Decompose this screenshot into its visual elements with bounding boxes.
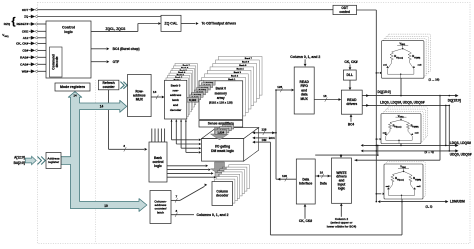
pin CK, CK# (label, buffer, wire) (16, 41, 46, 45)
op-amp Bank control logic (149, 142, 167, 182)
op-amp READ drivers (341, 90, 362, 114)
svg-text:BA[2:0]: BA[2:0] (14, 161, 25, 165)
wire DQ input feedback to WRITE drivers (355, 95, 441, 162)
counter Column address counter/latch (150, 191, 171, 224)
svg-text:7: 7 (175, 195, 177, 199)
svg-text:interface: interface (299, 181, 312, 185)
bus 8,192 row lines boxes (187, 80, 215, 102)
wire OTF output (91, 60, 119, 64)
wire 128 bidirectional to I/O gating (252, 127, 277, 135)
svg-text:13: 13 (153, 90, 157, 94)
op-amp I/O gating DM mask logic (202, 128, 259, 162)
svg-text:register: register (48, 160, 60, 164)
resistor ODT RTT block DM (384, 164, 423, 199)
svg-text:16: 16 (323, 94, 327, 98)
svg-text:BC4: BC4 (348, 122, 355, 126)
svg-text:logic: logic (64, 30, 73, 34)
node core region dotted line (95, 80, 97, 244)
svg-text:CK, CK#: CK, CK# (299, 219, 312, 223)
wire bank select lines to row latch stack (152, 129, 165, 143)
svg-text:DM mask logic: DM mask logic (211, 149, 234, 153)
svg-text:(1 ... 4): (1 ... 4) (425, 150, 434, 154)
pin CKE (label, buffer, wire) (22, 29, 46, 33)
svg-text:LDM/UDM: LDM/UDM (450, 200, 465, 204)
pin WE# (label, buffer, wire) (22, 69, 46, 73)
bus address bus (teal) (61, 92, 147, 212)
svg-text:128: 128 (262, 127, 267, 131)
node ODT control label (339, 6, 350, 14)
svg-text:Bank 0: Bank 0 (171, 83, 181, 87)
svg-text:MUX: MUX (301, 97, 309, 101)
svg-text:CK, CK#: CK, CK# (16, 41, 28, 45)
wire column address 7 to column decoder (171, 184, 207, 203)
node (1 ... 4) count label (425, 150, 434, 154)
svg-text:ZQ CAL: ZQ CAL (164, 21, 178, 25)
svg-text:3: 3 (123, 144, 125, 148)
node bank memory array stack (banks 1-7) (202, 57, 262, 116)
wire DLL to READ drivers (349, 80, 352, 90)
svg-text:ZQCL, ZQCS: ZQCL, ZQCS (106, 27, 127, 31)
op-amp U-ODT ODT control box (333, 5, 357, 14)
svg-text:LDQS, LDQS#: LDQS, LDQS# (450, 141, 471, 145)
svg-text:(8192 x 128 x 128): (8192 x 128 x 128) (209, 101, 233, 105)
op-amp WRITE drivers and input logic (332, 158, 352, 203)
svg-text:128: 128 (282, 174, 287, 178)
svg-text:Columns 0, 1, and 2: Columns 0, 1, and 2 (197, 213, 229, 217)
svg-text:CAS#: CAS# (20, 62, 28, 66)
svg-text:address: address (170, 93, 182, 97)
bus I/O gating to column decoder arrow (211, 162, 229, 175)
svg-text:logic: logic (154, 164, 162, 168)
node (1 ... 16) count label (429, 78, 440, 82)
svg-text:(1 ... 16): (1 ... 16) (429, 78, 440, 82)
svg-text:TT(nom): TT(nom) (394, 127, 401, 129)
node address input A[12:0] BA[2:0] (14, 155, 46, 165)
svg-text:decode: decode (55, 56, 59, 67)
svg-text:A12: A12 (23, 36, 29, 40)
svg-text:row-: row- (173, 88, 179, 92)
svg-text:WE#: WE# (22, 69, 29, 73)
wire 16 READ FIFO to READ drivers (314, 94, 341, 102)
svg-text:logic: logic (338, 186, 346, 190)
bus 1,024 I/O lines boxes (215, 125, 234, 135)
decoder Bank 0 row-address latch and decoder (165, 80, 187, 119)
wire row address 13 to latch stack (151, 90, 164, 99)
svg-text:TT(nom): TT(nom) (396, 57, 403, 59)
svg-text:Bank 0: Bank 0 (216, 87, 227, 91)
svg-text:TT(WR): TT(WR) (415, 179, 422, 181)
wire 128 to data interface (276, 174, 296, 182)
svg-text:RAS#: RAS# (20, 55, 28, 59)
wire BC4 burst chop output (91, 47, 140, 51)
svg-text:and: and (173, 103, 178, 107)
svg-text:TT(WR): TT(WR) (412, 127, 419, 129)
svg-text:decoder: decoder (216, 193, 229, 197)
svg-text:array: array (217, 96, 225, 100)
svg-text:BC4: BC4 (269, 136, 275, 140)
svg-text:DQ[15:0]: DQ[15:0] (378, 90, 391, 94)
svg-text:DDQ: DDQ (401, 44, 405, 46)
wire UDQS pad wire (361, 105, 472, 156)
op-amp Sense amplifiers (199, 121, 243, 128)
decoder Command decode (50, 47, 63, 77)
op-amp DLL (343, 70, 356, 80)
svg-text:A[12:0]: A[12:0] (14, 155, 25, 159)
node Bank 0 memory array (199, 81, 243, 120)
wire column 2 select into WRITE drivers (327, 203, 356, 228)
svg-text:CS#: CS# (22, 48, 28, 52)
svg-text:ODT: ODT (22, 8, 29, 12)
svg-text:OTF: OTF (113, 60, 120, 64)
wire ODT control rail (357, 10, 385, 202)
svg-text:128: 128 (277, 85, 282, 89)
svg-text:14: 14 (100, 104, 104, 108)
node Control logic label (62, 26, 75, 34)
node refresh chevron arrow (120, 82, 127, 89)
svg-text:Mode registers: Mode registers (60, 85, 85, 89)
pin ODT (label, buffer, wire) (22, 8, 333, 12)
node (1, 2) count label (426, 205, 433, 209)
wire LDM/UDM pad wire (376, 199, 466, 204)
svg-text:14: 14 (73, 94, 77, 98)
svg-text:counter: counter (103, 85, 116, 89)
clock CK,CK# into DLL (344, 60, 357, 70)
svg-text:RESET#: RESET# (16, 22, 28, 26)
register Mode registers (55, 83, 90, 91)
wire ZQCL,ZQCS from control logic to ZQ CAL (91, 22, 161, 31)
wire DM mask path (252, 138, 402, 235)
wire latch stack to I/O gating elbows (171, 120, 202, 154)
svg-text:TT(WR): TT(WR) (414, 57, 421, 59)
wire refresh counter to bank select (3) (109, 90, 148, 152)
svg-text:control: control (339, 10, 350, 14)
resistor ODT RTT block DQ (381, 41, 424, 78)
bus 128 column lines boxes (215, 167, 234, 177)
ground VSSQ (2, 33, 9, 38)
wire columns 0,1,2 (3) (171, 209, 229, 217)
decoder bank row-address latch stack (banks 1-7) (166, 64, 197, 117)
svg-text:To ODT/output drivers: To ODT/output drivers (202, 22, 237, 26)
svg-text:1,024: 1,024 (217, 130, 224, 134)
register READ FIFO and data MUX (294, 67, 314, 114)
svg-text:decoder: decoder (170, 108, 182, 112)
svg-text:Data: Data (320, 182, 327, 186)
op-amp none Control logic box (46, 21, 91, 78)
pin CAS# (label, buffer, wire) (20, 62, 46, 66)
counter Refresh counter (98, 80, 119, 90)
svg-text:CKE: CKE (22, 29, 28, 33)
register Address register (46, 153, 61, 169)
svg-text:LDQS, LDQS#, UDQS, UDQS#: LDQS, LDQS#, UDQS, UDQS# (380, 100, 425, 104)
resistor ODT RTT block DM stack (386, 162, 425, 197)
svg-text:MUX: MUX (136, 97, 144, 101)
svg-text:BC4 (Burst chop): BC4 (Burst chop) (113, 47, 140, 51)
wire bank control to column decoder stack (167, 165, 216, 179)
resistor ODT RTT block DQS stack (383, 107, 427, 141)
pin ZQ (label, buffer, wire) (24, 15, 161, 19)
op-amp U-ZQCAL ZQ calibration block (161, 15, 181, 31)
svg-text:RZQ: RZQ (4, 22, 11, 26)
wire 128 to READ FIFO (275, 85, 294, 92)
decoder column decoder stack (banks 1-7) (214, 165, 249, 203)
svg-text:DQ[15:0]: DQ[15:0] (448, 99, 461, 103)
wire DQ[15:0] pad wire (362, 78, 461, 102)
svg-text:ZQ: ZQ (24, 15, 29, 19)
wire LDQS pad wire (361, 105, 471, 147)
wire ZQ CAL to ODT/output drivers (181, 22, 236, 26)
wire BC4 into READ drivers (348, 114, 355, 126)
resistor RZQ (external, brace to VSSQ) (4, 17, 16, 28)
svg-text:{: { (12, 17, 16, 28)
svg-text:Column 0, 1, and 2: Column 0, 1, and 2 (290, 55, 320, 59)
bus sense amp to I/O gating arrow (211, 127, 229, 140)
svg-text:DLL: DLL (346, 73, 353, 77)
pin CS# (label, buffer, wire) (22, 48, 46, 52)
resistor ODT RTT block DQ stack (384, 34, 431, 76)
svg-text:10: 10 (104, 204, 108, 208)
resistor ODT RTT block DQS (381, 114, 421, 144)
wire 16 Data bidirectional (315, 171, 331, 186)
svg-text:UDQS, UDQS#: UDQS, UDQS# (450, 152, 472, 156)
mux Row-address MUX (128, 74, 152, 116)
svg-text:CK, CK#: CK, CK# (344, 60, 357, 64)
clock CK,CK# into data interface (299, 204, 312, 223)
svg-text:latch: latch (172, 98, 179, 102)
wire BC4 into I/O gating (252, 136, 275, 140)
wire column 0,1,2 into READ FIFO (290, 55, 320, 67)
svg-text:3: 3 (175, 209, 177, 213)
register Data interface (296, 159, 315, 204)
decoder Column decoder (bank 0) (212, 182, 233, 206)
svg-text:8,192: 8,192 (189, 98, 196, 102)
wire LDQS to input logic (377, 145, 379, 156)
svg-text:memory: memory (215, 91, 228, 95)
svg-text:(1, 2): (1, 2) (426, 205, 433, 209)
svg-text:DM: DM (262, 138, 267, 142)
svg-text:lower nibble for BC4): lower nibble for BC4) (327, 225, 356, 229)
svg-text:drivers: drivers (346, 102, 357, 106)
bus internal 128-bit data bus vertical (275, 90, 277, 179)
pin RAS# (label, buffer, wire) (20, 55, 46, 59)
svg-text:TT(nom): TT(nom) (397, 179, 404, 181)
wire DQS bundle from READ drivers (362, 100, 450, 106)
svg-text:16: 16 (320, 171, 324, 175)
pin RESET# (label, buffer, wire) (16, 22, 46, 26)
wire input path to WRITE drivers (315, 154, 378, 158)
pin A12 (label, buffer, wire) (23, 36, 46, 40)
svg-text:latch: latch (157, 210, 164, 214)
svg-text:SSQ: SSQ (4, 36, 9, 38)
